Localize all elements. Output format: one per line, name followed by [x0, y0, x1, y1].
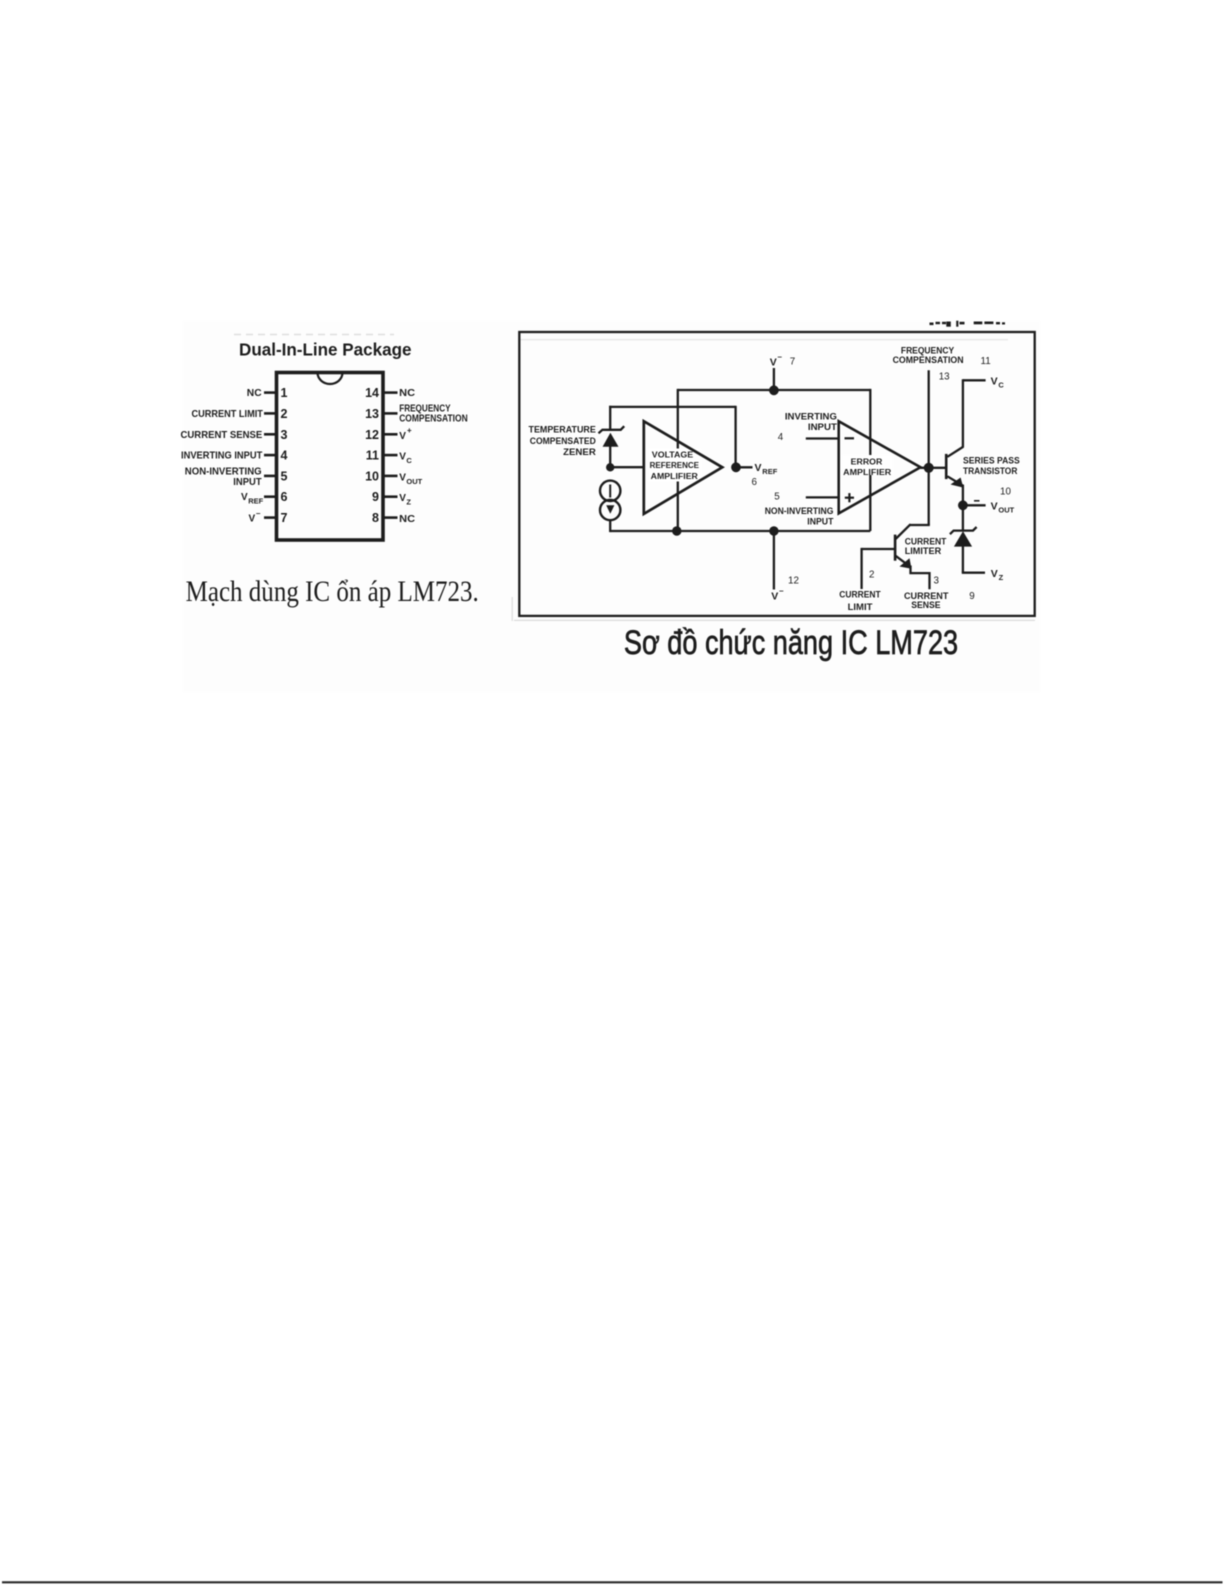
svg-text:13: 13: [939, 372, 950, 383]
svg-text:REFERENCE: REFERENCE: [650, 460, 700, 470]
svg-text:Mạch dùng IC ổn áp LM723.: Mạch dùng IC ổn áp LM723.: [186, 575, 479, 608]
svg-text:TEMPERATURE: TEMPERATURE: [529, 425, 597, 436]
svg-text:REF: REF: [248, 497, 263, 506]
svg-text:10: 10: [1000, 486, 1011, 497]
svg-text:COMPENSATED: COMPENSATED: [530, 436, 596, 447]
svg-text:9: 9: [372, 490, 379, 504]
svg-text:8: 8: [372, 511, 379, 525]
svg-text:CURRENT: CURRENT: [839, 590, 881, 601]
svg-text:–: –: [778, 353, 783, 362]
svg-text:NC: NC: [247, 388, 262, 399]
svg-text:COMPENSATION: COMPENSATION: [399, 413, 468, 424]
svg-text:INPUT: INPUT: [807, 517, 833, 528]
svg-text:NC: NC: [399, 388, 415, 399]
svg-text:+: +: [407, 426, 412, 435]
svg-text:C: C: [998, 381, 1004, 390]
svg-text:V: V: [991, 568, 998, 580]
svg-text:6: 6: [281, 490, 288, 504]
svg-text:3: 3: [281, 428, 288, 442]
svg-text:AMPLIFIER: AMPLIFIER: [651, 471, 699, 481]
svg-text:V: V: [241, 492, 248, 503]
svg-text:V: V: [771, 591, 778, 603]
svg-text:VOLTAGE: VOLTAGE: [652, 450, 694, 460]
svg-text:7: 7: [281, 511, 288, 525]
svg-text:4: 4: [281, 449, 288, 463]
svg-text:V: V: [755, 462, 762, 474]
svg-text:INPUT: INPUT: [233, 477, 261, 488]
svg-text:LIMIT: LIMIT: [848, 602, 873, 613]
svg-text:COMPENSATION: COMPENSATION: [893, 355, 964, 366]
svg-text:12: 12: [788, 575, 799, 586]
svg-text:REF: REF: [762, 467, 777, 476]
svg-text:INVERTING: INVERTING: [785, 411, 837, 422]
svg-text:–: –: [779, 587, 784, 596]
svg-text:CURRENT SENSE: CURRENT SENSE: [181, 430, 263, 441]
svg-text:3: 3: [934, 576, 940, 587]
svg-text:INVERTING INPUT: INVERTING INPUT: [181, 451, 262, 462]
svg-text:7: 7: [790, 357, 795, 368]
svg-text:V: V: [399, 452, 406, 463]
svg-text:C: C: [406, 456, 412, 465]
svg-text:5: 5: [281, 469, 288, 483]
svg-text:V: V: [991, 501, 998, 513]
svg-text:V: V: [770, 357, 777, 369]
svg-text:INPUT: INPUT: [808, 422, 837, 433]
svg-text:6: 6: [752, 477, 758, 488]
svg-text:AMPLIFIER: AMPLIFIER: [843, 467, 892, 477]
svg-text:Dual-In-Line Package: Dual-In-Line Package: [239, 340, 412, 360]
svg-text:V: V: [991, 376, 998, 388]
svg-text:13: 13: [365, 407, 379, 421]
svg-text:10: 10: [365, 469, 379, 483]
svg-text:OUT: OUT: [406, 477, 422, 486]
svg-text:Z: Z: [999, 573, 1004, 582]
svg-text:V: V: [399, 472, 406, 483]
svg-text:14: 14: [365, 386, 379, 400]
svg-text:SERIES PASS: SERIES PASS: [963, 455, 1020, 466]
svg-text:4: 4: [778, 432, 784, 443]
svg-text:SENSE: SENSE: [911, 600, 941, 611]
svg-text:TRANSISTOR: TRANSISTOR: [963, 466, 1017, 477]
svg-text:NC: NC: [399, 514, 415, 525]
svg-text:12: 12: [365, 428, 379, 442]
svg-text:ERROR: ERROR: [851, 456, 883, 466]
svg-text:11: 11: [981, 356, 991, 367]
svg-text:Z: Z: [406, 498, 411, 507]
svg-text:2: 2: [281, 407, 288, 421]
svg-text:V: V: [399, 493, 406, 504]
svg-text:V: V: [249, 514, 256, 525]
svg-text:11: 11: [366, 449, 379, 463]
svg-text:NON-INVERTING: NON-INVERTING: [765, 506, 834, 517]
svg-text:–: –: [256, 509, 261, 518]
svg-text:9: 9: [969, 591, 974, 602]
svg-text:1: 1: [281, 386, 288, 400]
svg-text:Sơ đồ chức năng IC LM723: Sơ đồ chức năng IC LM723: [624, 624, 958, 662]
svg-text:V: V: [399, 431, 406, 442]
svg-text:OUT: OUT: [998, 506, 1014, 515]
svg-text:CURRENT LIMIT: CURRENT LIMIT: [192, 409, 263, 420]
svg-text:5: 5: [774, 492, 780, 503]
svg-text:2: 2: [869, 570, 874, 581]
svg-text:LIMITER: LIMITER: [905, 546, 942, 557]
svg-text:ZENER: ZENER: [563, 447, 596, 458]
svg-text:NON-INVERTING: NON-INVERTING: [185, 466, 262, 477]
